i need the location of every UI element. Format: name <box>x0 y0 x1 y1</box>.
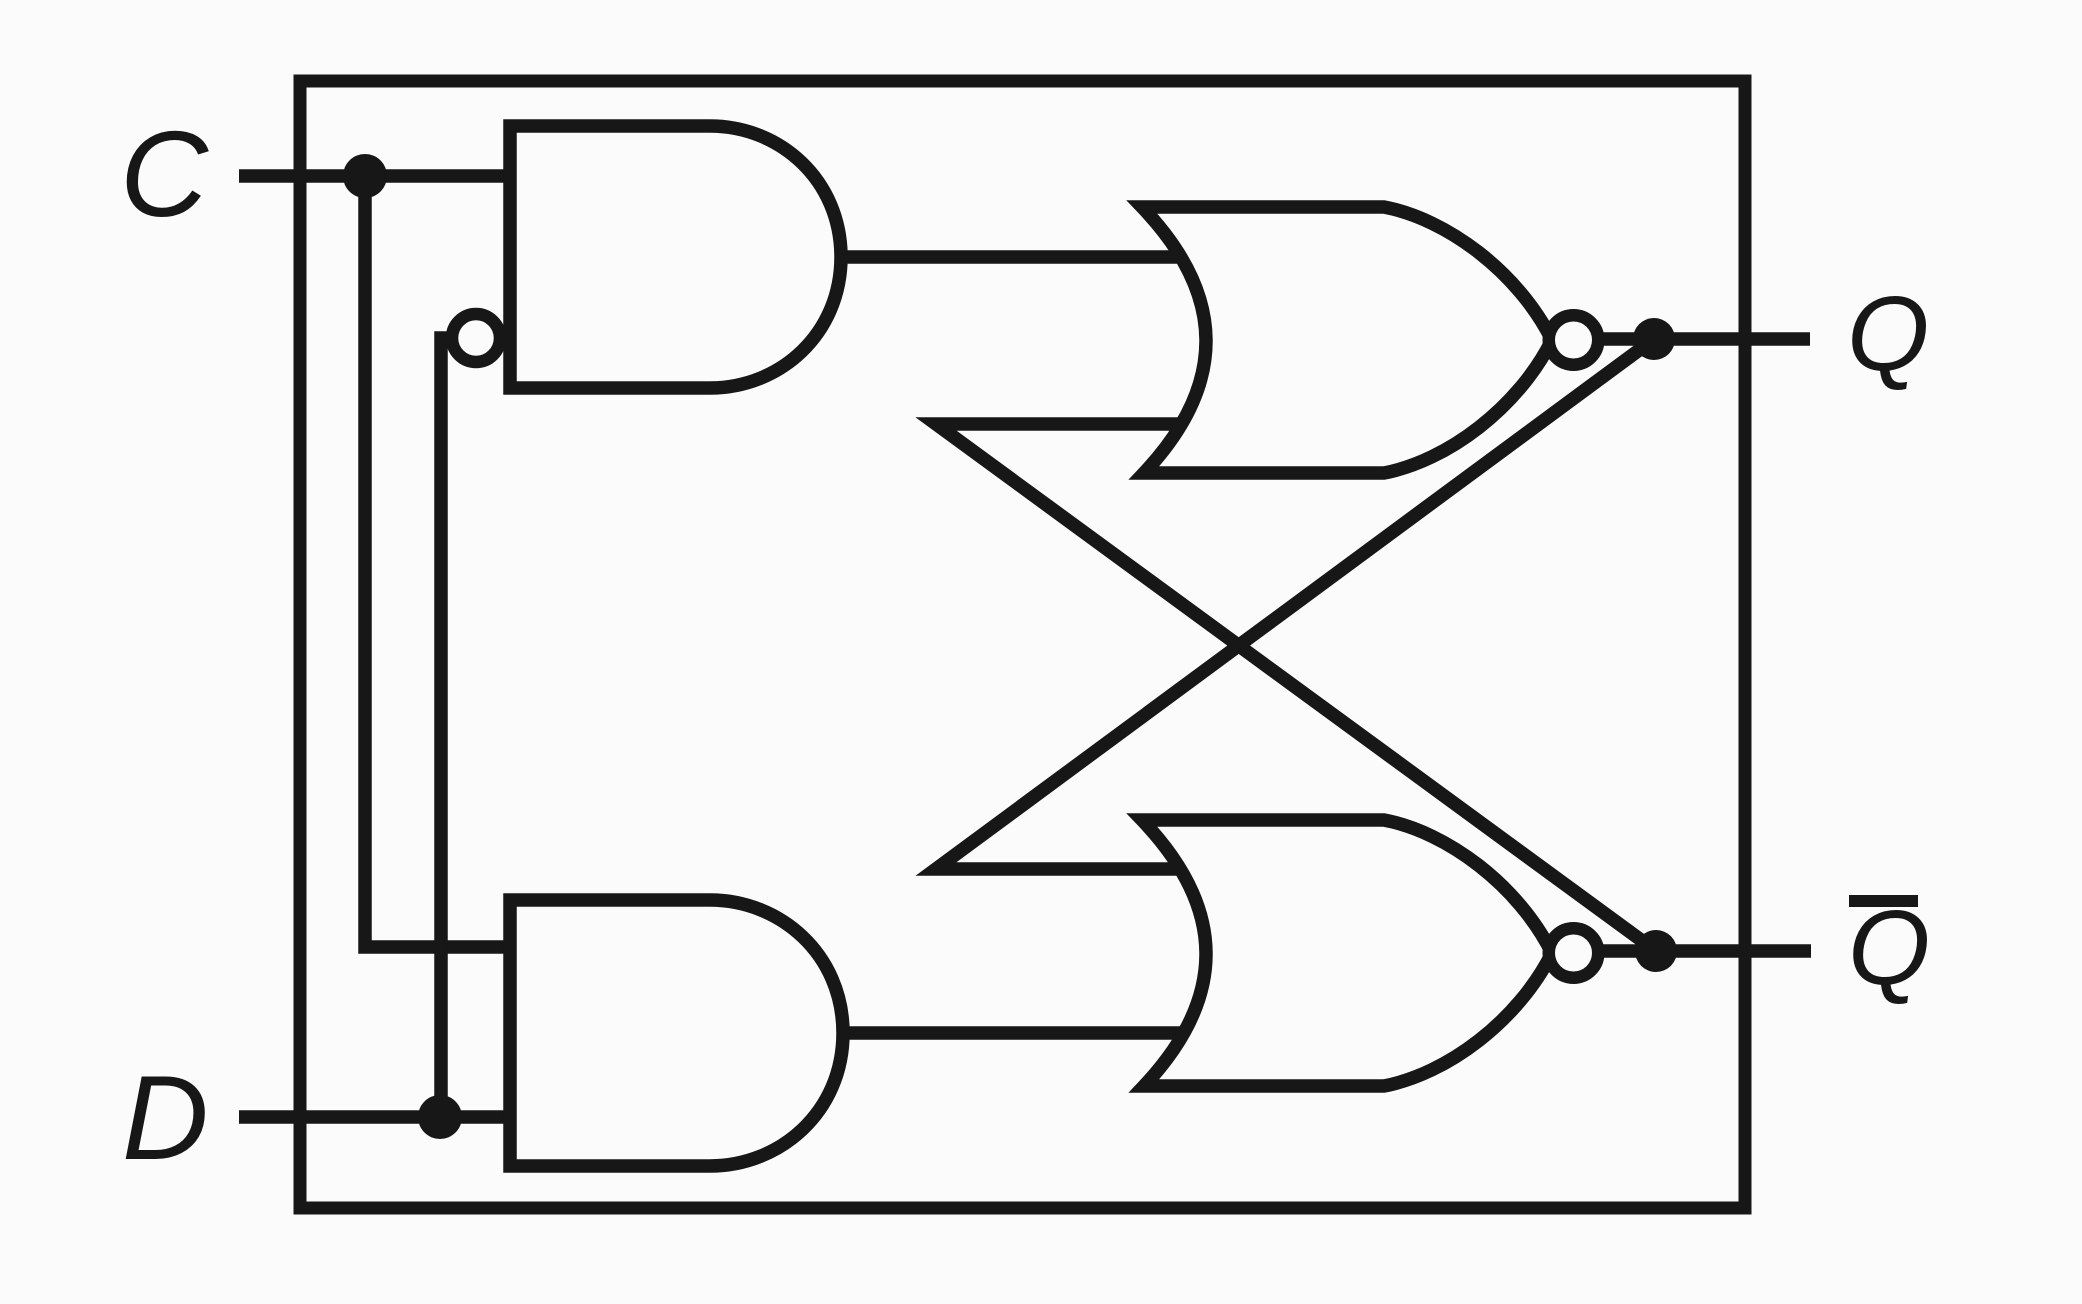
AND gate U1 (top) <box>510 126 841 388</box>
wire: C input <box>239 169 510 183</box>
junction dot at Qbar node <box>1635 930 1677 972</box>
NOR gate U3 (top) body <box>1142 207 1552 473</box>
svg-text:C: C <box>120 106 209 242</box>
outer box border <box>300 81 1745 1208</box>
junction dot on C line <box>343 154 387 198</box>
junction dot on D line <box>418 1095 462 1139</box>
overbar of Qbar <box>1849 895 1918 907</box>
NOR gate U4 (bottom) body <box>1142 820 1552 1086</box>
wire: NOR2 upper input + cross-couple diagonal to Q node <box>936 339 1654 869</box>
AND gate U2 (bottom) <box>510 900 843 1166</box>
junction dot at Q node <box>1633 318 1675 360</box>
inversion bubble on AND1 lower input <box>452 314 500 362</box>
wire: NOR1 lower input + cross-couple diagonal to Qbar node <box>936 424 1656 951</box>
wire: Q output <box>1570 332 1810 346</box>
wire: Qbar output <box>1570 944 1811 958</box>
wire: AND2 output to NOR2 lower input <box>832 1026 1205 1040</box>
svg-text:Q: Q <box>1847 275 1929 393</box>
wire: D feedback vertical to AND1 inverted input <box>441 338 455 1117</box>
wire: D input <box>239 1110 510 1124</box>
wire: AND1 output to NOR1 upper input <box>830 250 1205 264</box>
inversion bubble on NOR2 output <box>1549 928 1599 978</box>
wire: C feedback vertical and horizontal to AND2 upper input <box>365 176 510 947</box>
inversion bubble on NOR1 output <box>1549 315 1599 365</box>
svg-text:D: D <box>122 1051 209 1185</box>
